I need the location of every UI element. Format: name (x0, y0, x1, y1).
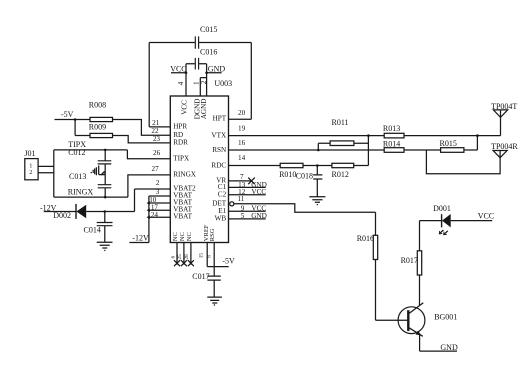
svg-text:GND: GND (251, 212, 267, 220)
svg-text:22: 22 (151, 127, 159, 135)
svg-text:20: 20 (238, 109, 246, 117)
svg-text:-5V: -5V (61, 110, 74, 119)
svg-text:C018: C018 (296, 171, 313, 180)
svg-text:C012: C012 (68, 148, 85, 157)
svg-text:19: 19 (238, 125, 246, 133)
svg-text:AGND: AGND (200, 99, 208, 120)
svg-text:11: 11 (237, 195, 244, 203)
svg-text:8: 8 (207, 255, 213, 258)
svg-text:5: 5 (241, 212, 245, 220)
svg-text:C2: C2 (218, 191, 227, 199)
svg-text:C015: C015 (200, 25, 217, 34)
svg-text:24: 24 (151, 211, 159, 219)
svg-text:VCC: VCC (180, 100, 188, 115)
svg-text:6: 6 (170, 256, 176, 259)
svg-text:RSN: RSN (212, 146, 227, 154)
svg-text:R010: R010 (279, 170, 296, 179)
svg-text:VCC: VCC (170, 65, 186, 74)
svg-text:14: 14 (238, 154, 246, 162)
svg-text:3: 3 (156, 188, 160, 196)
svg-text:VCC: VCC (478, 211, 494, 220)
svg-text:BG001: BG001 (434, 312, 457, 321)
svg-text:R009: R009 (89, 123, 106, 132)
svg-text:J01: J01 (24, 149, 35, 158)
svg-text:2: 2 (200, 80, 208, 84)
svg-text:NC: NC (179, 232, 186, 241)
svg-text:D002: D002 (53, 211, 71, 220)
svg-text:R017: R017 (401, 256, 418, 265)
svg-text:VTX: VTX (211, 131, 227, 139)
svg-text:R015: R015 (440, 139, 457, 148)
svg-text:23: 23 (153, 135, 161, 143)
svg-text:25: 25 (177, 254, 183, 260)
svg-text:NC: NC (186, 232, 193, 241)
svg-text:-5V: -5V (222, 257, 235, 266)
svg-text:C013: C013 (69, 172, 86, 181)
svg-text:R014: R014 (383, 140, 400, 149)
svg-text:RDC: RDC (211, 161, 226, 169)
svg-text:7: 7 (240, 173, 244, 181)
svg-text:RINGX: RINGX (68, 187, 94, 196)
svg-text:TP004T: TP004T (491, 102, 517, 111)
svg-text:R008: R008 (89, 100, 106, 109)
svg-text:RSG: RSG (209, 228, 216, 241)
svg-text:2: 2 (29, 169, 32, 176)
svg-text:17: 17 (151, 203, 159, 211)
svg-text:27: 27 (152, 165, 160, 173)
svg-text:2: 2 (156, 179, 160, 187)
svg-text:R013: R013 (383, 124, 400, 133)
svg-text:R011: R011 (332, 118, 349, 127)
svg-text:C017: C017 (192, 272, 209, 281)
svg-text:C016: C016 (200, 48, 217, 57)
svg-text:GND: GND (440, 343, 458, 352)
svg-text:R016: R016 (357, 234, 374, 243)
svg-text:TIPX: TIPX (173, 154, 190, 162)
svg-text:VBAT: VBAT (173, 213, 192, 221)
svg-text:C014: C014 (84, 225, 101, 234)
svg-text:21: 21 (152, 119, 160, 127)
svg-text:R012: R012 (332, 170, 349, 179)
svg-text:4: 4 (177, 81, 185, 85)
svg-text:D001: D001 (433, 204, 451, 213)
svg-text:RDR: RDR (173, 139, 188, 147)
svg-text:HPR: HPR (173, 123, 187, 131)
svg-text:HPT: HPT (213, 115, 227, 123)
svg-text:GND: GND (208, 65, 226, 74)
svg-text:VCC: VCC (251, 188, 266, 196)
svg-text:TP004R: TP004R (491, 142, 518, 151)
svg-text:26: 26 (153, 149, 161, 157)
svg-text:15: 15 (198, 253, 204, 259)
svg-text:28: 28 (184, 254, 190, 260)
svg-text:16: 16 (238, 139, 246, 147)
svg-text:WB: WB (215, 215, 227, 223)
svg-text:-12V: -12V (132, 233, 149, 242)
svg-text:RINGX: RINGX (173, 171, 197, 179)
svg-text:U003: U003 (214, 79, 232, 88)
